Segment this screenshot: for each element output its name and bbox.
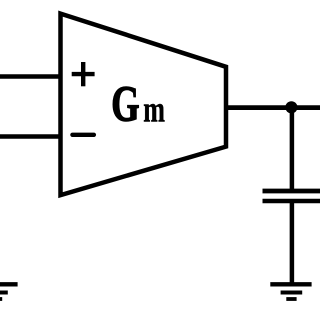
- ground: left ground symbol (cut off by image edge): [0, 284, 18, 299]
- wire: vertical wire from junction to capacitor: [290, 107, 295, 191]
- wire: inverting input wire: [0, 134, 62, 139]
- capacitor C1: bottom plate: [263, 199, 320, 203]
- op-amp U1: OTA trapezoid body Gm: [61, 14, 227, 196]
- capacitor C1: top plate: [263, 189, 320, 194]
- plus input terminal label: [72, 62, 95, 86]
- wire: vertical wire from capacitor to ground: [290, 201, 295, 284]
- label Gm: [111, 76, 165, 132]
- ground: right ground symbol: [270, 284, 311, 299]
- wire: output wire: [226, 105, 320, 110]
- node: output junction dot: [285, 101, 297, 113]
- svg-text:G: G: [111, 76, 139, 132]
- svg-text:m: m: [143, 89, 165, 129]
- minus input terminal label: [72, 133, 94, 137]
- wire: non-inverting input wire: [0, 74, 62, 79]
